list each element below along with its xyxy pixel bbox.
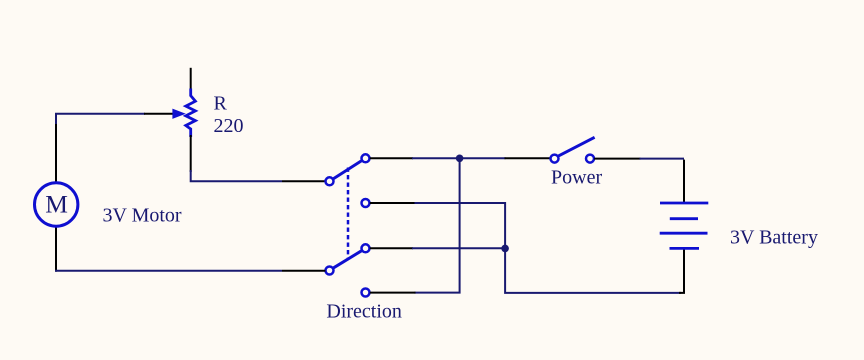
wire: node B down and right along bottom (navy) <box>505 248 681 293</box>
wire: throw1b navy part with corner down to node B <box>415 203 506 248</box>
wire: to pole1 (black) <box>282 180 325 182</box>
resistor R1 zigzag <box>186 89 196 138</box>
svg-text:220: 220 <box>214 115 244 137</box>
wire: throw1b black part <box>370 202 416 204</box>
svg-text:R: R <box>214 92 228 114</box>
wire: resistor bottom corner (navy) <box>191 170 282 181</box>
wiper arrow head <box>172 109 185 119</box>
node B junction dot <box>501 245 509 253</box>
battery plate 2 (short) <box>670 217 698 220</box>
power switch blade <box>558 137 595 156</box>
switch throw 1b terminal <box>362 199 370 207</box>
wire: throw2b horizontal (black) <box>370 292 416 294</box>
wire: resistor bottom stub (black) <box>190 135 192 172</box>
switch blade 1 <box>333 160 362 179</box>
battery plate 1 (long) <box>660 202 708 205</box>
svg-text:Direction: Direction <box>326 301 402 323</box>
wire: battery bottom stub corner (black) <box>679 249 684 293</box>
svg-text:3V Battery: 3V Battery <box>730 227 818 249</box>
wire: throw1a to junction black part <box>370 157 413 159</box>
wire: node A to transition (navy) <box>462 157 506 159</box>
wire: wiper horizontal black segment <box>144 113 173 115</box>
wire: battery top stub (black) <box>683 160 685 203</box>
battery plate 4 (short) <box>670 247 700 250</box>
wire: resistor top stub (black) <box>190 68 192 90</box>
svg-text:3V Motor: 3V Motor <box>103 204 182 226</box>
wire: to pole2 (black) <box>282 270 325 272</box>
svg-text:M: M <box>45 190 68 219</box>
wire: power switch right (black) <box>594 158 640 160</box>
battery plate 3 (long) <box>660 232 708 235</box>
switch throw 2a terminal <box>362 244 370 252</box>
DPDT mechanical link (dashed) <box>347 168 350 259</box>
switch pole 1 terminal <box>326 177 334 185</box>
wire: motor top corner (navy) <box>56 114 145 126</box>
wire: motor bottom vertical (black) <box>55 226 57 272</box>
motor U1 circle <box>35 183 78 226</box>
switch blade 2 <box>333 250 362 268</box>
wire: motor top vertical (black) <box>55 124 57 183</box>
wire: top right corner (navy) <box>640 158 685 160</box>
power switch left terminal <box>551 155 559 163</box>
wire: throw2a black part <box>370 247 413 249</box>
power switch right terminal <box>586 155 594 163</box>
svg-text:Power: Power <box>551 167 602 189</box>
node A junction dot <box>456 155 464 163</box>
switch throw 1a terminal <box>362 154 370 162</box>
switch throw 2b terminal <box>362 289 370 297</box>
wire: to power switch (black) <box>505 157 551 159</box>
wire: throw1a to junction navy part <box>412 157 460 159</box>
wire: vertical node A to bottom left <box>415 158 460 292</box>
wire: motor bottom horizontal (navy) <box>55 270 282 272</box>
switch pole 2 terminal <box>326 267 334 275</box>
wire: throw2a navy part <box>412 247 505 249</box>
